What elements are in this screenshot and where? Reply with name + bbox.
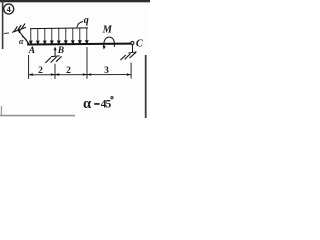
angle alpha arc (22, 37, 28, 45)
support rod at A (18, 30, 29, 44)
svg-text:α: α (19, 37, 24, 46)
svg-text:3: 3 (104, 66, 109, 76)
panel border left lower stub (1, 106, 2, 116)
distributed load top line (30, 27, 88, 30)
svg-text:45: 45 (101, 99, 112, 111)
moment arrowhead (103, 46, 106, 50)
beam A-C (27, 43, 131, 46)
svg-text:2: 2 (66, 66, 71, 76)
dimension arrowheads (29, 73, 132, 76)
panel border left (2, 0, 4, 49)
moment arc (104, 37, 115, 47)
svg-text:A: A (28, 46, 35, 56)
svg-text:2: 2 (38, 66, 43, 76)
panel border bottom gray rule (0, 115, 75, 117)
svg-text:α: α (83, 96, 91, 112)
rod anchor arrowhead at wall (18, 29, 21, 33)
panel border top (0, 0, 150, 2)
ground hatching at C (121, 52, 136, 60)
wall hatching at A (14, 24, 25, 32)
svg-text:C: C (136, 39, 144, 50)
ground line at C (128, 52, 136, 53)
extension line below A (28, 55, 30, 79)
small dash left of A support (4, 32, 9, 35)
dimension line (29, 74, 132, 76)
support stub at C (131, 45, 133, 53)
ground line at B (51, 55, 60, 58)
q leader (77, 22, 83, 29)
extension line below B (54, 64, 56, 79)
panel border right (145, 55, 147, 118)
svg-text:4: 4 (7, 4, 12, 14)
distributed load arrows (30, 28, 89, 44)
svg-text:B: B (57, 46, 64, 56)
extension line at load end (86, 47, 88, 79)
extension line below C (130, 63, 132, 79)
wall line at A (12, 27, 26, 32)
support tick at B (54, 50, 56, 57)
svg-text:q: q (84, 15, 89, 26)
svg-text:M: M (102, 24, 113, 35)
pin circle at C (131, 42, 134, 45)
ground hatching at B (45, 56, 61, 63)
problem number circle 4 (4, 4, 14, 14)
